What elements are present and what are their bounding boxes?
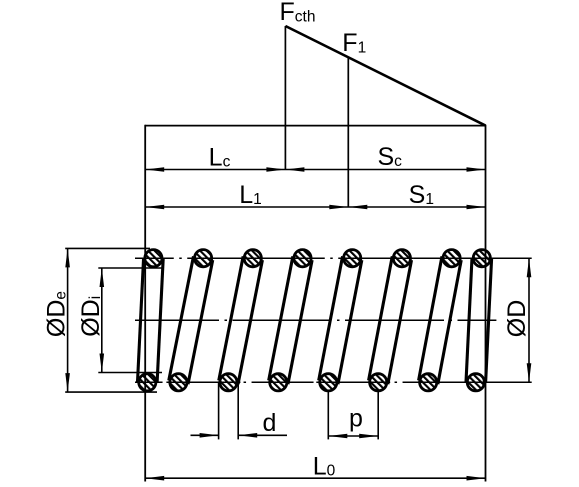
right border / extension line [485, 125, 487, 482]
extension line ODi top [98, 267, 162, 269]
arrow p right [359, 434, 378, 439]
force characteristic diagonal [285, 26, 485, 126]
arrow d left [200, 433, 219, 438]
arrow S1 right [467, 205, 486, 210]
dimension line d right segment [238, 434, 287, 436]
coil band 4 [319, 256, 362, 384]
arrow L1 left [145, 205, 164, 210]
left border / extension line [144, 125, 146, 482]
arrow L0 left [145, 476, 164, 481]
arrow L1 right [329, 205, 348, 210]
coil band 5 [369, 256, 412, 384]
dimension line d left segment [191, 434, 219, 436]
dimension line Lc / Sc [145, 169, 485, 171]
arrow Sc right [467, 167, 486, 172]
arrow Lc right [266, 167, 285, 172]
spring axis centerline (dash-dot) [135, 319, 496, 321]
arrow ODi up [100, 268, 105, 287]
wire section circles top row [145, 250, 491, 267]
top reference line of box [145, 125, 485, 127]
coil band 3 [269, 256, 312, 384]
svg-text:ØDi: ØDi [77, 296, 105, 337]
coil band 6 [419, 256, 462, 384]
arrow Sc left [285, 167, 304, 172]
coil band 2 [219, 256, 263, 384]
dimension line OD [528, 258, 530, 382]
arrow L0 right [467, 476, 486, 481]
dimension line p [328, 435, 378, 437]
wire ext line d right [237, 383, 239, 439]
wire section circles bottom row [139, 374, 485, 391]
arrow d right [238, 433, 257, 438]
centerline bottom coil row (dash-dot) [135, 381, 466, 383]
svg-text:ØD: ØD [503, 300, 531, 338]
force line Fcth vertical [284, 26, 286, 170]
force line F1 vertical [347, 58, 349, 207]
extension line ODi bottom [98, 372, 162, 374]
extension line OD top (solid to right dimension) [470, 257, 532, 259]
arrow ODe down [65, 373, 70, 392]
dimension line L0 [145, 477, 485, 479]
arrow OD down [527, 363, 532, 382]
pitch ext line p left [327, 382, 329, 439]
extension line OD bottom (solid to right dimension) [466, 381, 532, 383]
coil end band right [466, 258, 492, 383]
arrow Lc left [145, 167, 164, 172]
arrow OD up [527, 258, 532, 277]
arrow S1 left [348, 205, 367, 210]
extension line ODe bottom [65, 391, 157, 393]
dimension line ODi [101, 268, 103, 373]
centerline segments through top circles [141, 257, 493, 259]
arrow ODi down [100, 354, 105, 373]
centerline segments through bottom circles [135, 381, 488, 383]
arrow ODe up [65, 248, 70, 267]
svg-text:d: d [263, 409, 277, 437]
dimension line ODe [67, 248, 69, 392]
dimension line L1 / S1 [145, 206, 485, 208]
coil band 1 [169, 256, 213, 384]
pitch ext line p right [377, 382, 379, 439]
wire ext line d left [218, 383, 220, 439]
coil end band left [138, 258, 164, 383]
svg-text:p: p [349, 405, 363, 433]
extension line ODe top [65, 247, 150, 249]
centerline top coil row (dash-dot) [135, 257, 470, 259]
arrow p left [328, 434, 347, 439]
